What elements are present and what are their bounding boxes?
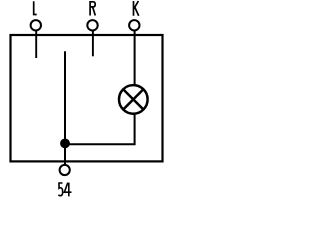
terminal circle L <box>31 20 41 30</box>
junction node <box>60 139 70 149</box>
box outline <box>11 35 163 161</box>
terminal circle K <box>129 20 139 30</box>
terminal circle 54 <box>60 165 70 175</box>
terminal label L <box>34 1 37 14</box>
wire: stub from terminal R into box <box>92 31 94 57</box>
wire: stub from terminal L into box <box>35 31 37 59</box>
wire: switch arm vertical to terminal 54 <box>64 51 66 164</box>
terminal circle R <box>87 20 97 30</box>
wire: lamp down then left to junction <box>65 115 135 145</box>
terminal label K <box>134 1 139 16</box>
terminal label 54 <box>58 183 71 197</box>
terminal label R <box>90 2 95 16</box>
lamp L1 (indicator light) <box>119 85 148 114</box>
wire: terminal K down to lamp <box>134 31 136 86</box>
